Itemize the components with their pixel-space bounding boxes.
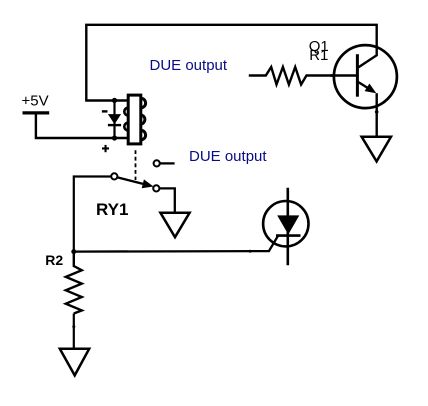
svg-text:+5V: +5V (22, 92, 49, 109)
svg-text:R2: R2 (45, 252, 63, 268)
+5V supply bar (23, 111, 50, 114)
ground R2 (60, 349, 89, 376)
junction dot R2 lead (72, 325, 75, 328)
wire emitter to ground (376, 93, 378, 137)
wire switch common left rail (74, 177, 112, 252)
svg-text:DUE output: DUE output (189, 148, 267, 165)
switch blade arrowhead (142, 179, 154, 188)
wire DUE terminal stub (160, 162, 175, 164)
SCR cathode bar (276, 234, 301, 237)
resistor R2 (66, 252, 82, 314)
SCR D2 body circle (263, 201, 308, 246)
transistor Q1 (330, 26, 397, 108)
wire NO contact to ground (159, 188, 175, 212)
SCR triangle (277, 215, 299, 234)
junction dot emitter lead (375, 110, 379, 114)
relay K1 coil body (128, 95, 141, 144)
junction dot diode bottom (112, 135, 117, 140)
wire bottom rail to SCR gate (74, 236, 278, 251)
junction dot R2 top (71, 249, 76, 254)
relay coil loop 3 (141, 130, 146, 140)
switch RY1 common terminal (111, 173, 117, 179)
plus polarity label (102, 145, 109, 152)
wire +5V to coil bottom (36, 114, 129, 138)
resistor R1 (249, 67, 358, 85)
svg-text:DUE output: DUE output (150, 57, 228, 74)
SCR anode-cathode line (286, 188, 289, 265)
relay coil hook 1 (124, 108, 128, 116)
relay coil hook 2 (124, 123, 128, 131)
switch RY1 NO terminal (153, 185, 159, 191)
diode D1 flyback (108, 101, 121, 139)
switch RY1 blade (117, 177, 147, 185)
relay coil loop 1 (141, 98, 146, 108)
wire R2 to ground (73, 314, 75, 349)
wire top rail (86, 25, 378, 101)
junction dot diode top (112, 98, 117, 103)
wire coil top feed (85, 99, 129, 101)
DUE output terminal circle (154, 160, 160, 166)
relay actuation dashed link (135, 150, 137, 180)
relay coil loop 2 (141, 115, 145, 125)
ground switch contact (160, 213, 189, 238)
minus polarity label (102, 110, 108, 112)
junction dot bottom rail (249, 250, 252, 253)
svg-text:R1: R1 (309, 47, 328, 64)
ground Q1 emitter (362, 137, 391, 162)
svg-text:RY1: RY1 (96, 200, 128, 219)
